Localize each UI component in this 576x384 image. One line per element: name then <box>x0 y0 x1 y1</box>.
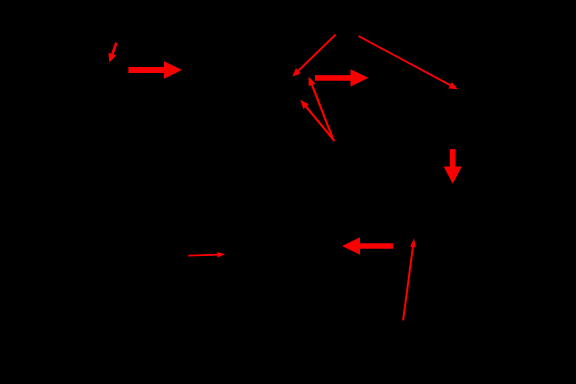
thick down arrow (right side) <box>444 149 462 184</box>
thick right arrow 2 (top-center) <box>315 69 368 86</box>
thin arrow A (from top label down-left) <box>292 34 336 77</box>
thick left arrow (bottom-center) <box>342 237 393 255</box>
thin right arrow (bottom-left) <box>188 252 225 257</box>
thin arrow C (hub up-left to node) <box>300 100 335 142</box>
thin up arrow (bottom-right) <box>402 238 416 320</box>
thick right arrow 1 (top-left) <box>128 61 182 79</box>
thin arrow B (hub up to node) <box>309 77 335 141</box>
annotation arrow 1 (small, pointing down-left, top-left) <box>108 42 117 62</box>
thin arrow D (from top label down-right) <box>358 35 458 89</box>
